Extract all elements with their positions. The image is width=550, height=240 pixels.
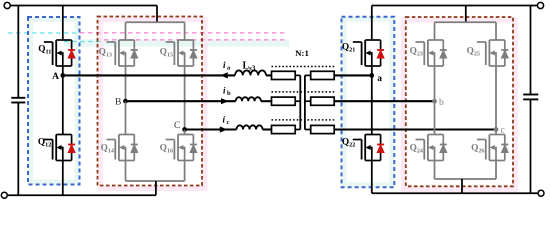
secondary winding b lead [305, 100, 311, 102]
svg-text:Q24: Q24 [410, 144, 423, 155]
svg-text:a: a [227, 65, 231, 72]
inductor coil (phase C inductor) [237, 125, 263, 129]
wire Q16 source to bus [184, 161, 186, 182]
magenta dashed group line (upper) [80, 32, 288, 34]
wire top bus legs B-C [126, 21, 185, 23]
wire phase C line [185, 128, 237, 130]
secondary neutral connection [304, 75, 306, 129]
svg-text:C: C [174, 121, 180, 131]
current arrow i_a (points left) [220, 72, 228, 78]
transformer secondary winding c [311, 125, 335, 133]
svg-text:B: B [115, 97, 121, 107]
svg-text:b: b [227, 90, 231, 97]
red dashed box (left legs B and C) [98, 17, 203, 186]
transistor Q12 [44, 135, 72, 161]
coupling dashed line a [272, 66, 335, 68]
wire node B to Q14 drain [125, 101, 127, 134]
wire Q23 source to node b [434, 66, 436, 101]
blue dashed box (right phase-a leg) [342, 17, 395, 188]
wire node a to Q22 drain [371, 75, 373, 134]
node C junction dot [182, 127, 187, 132]
wire Q11 source to node A [62, 66, 64, 75]
blue box halo right [344, 19, 392, 185]
transistor Q24 [416, 135, 444, 161]
wire phase A line [63, 74, 235, 76]
wire node b to Q24 drain [434, 101, 436, 134]
wire phase b line right [334, 100, 434, 102]
wire Q12 source to rail [62, 161, 64, 196]
transistor Q21 [353, 40, 381, 66]
wire left bus upper [17, 6, 19, 98]
transformer secondary winding b [311, 97, 335, 105]
wire Q13 source to node B [125, 66, 127, 101]
svg-text:Q15: Q15 [160, 48, 173, 59]
svg-text:Q21: Q21 [342, 43, 355, 54]
primary winding b lead [295, 100, 300, 102]
node B junction dot [123, 99, 128, 104]
transformer primary winding a [272, 71, 296, 79]
coupling dashed line c [272, 119, 335, 121]
transistor Q16 [166, 135, 194, 161]
node A junction dot [60, 73, 65, 78]
wire Q22 source to rail [371, 161, 373, 194]
svg-text:Q16: Q16 [160, 144, 173, 155]
cyan dashed group line (upper) [8, 32, 79, 34]
wire Q15 drain [184, 22, 186, 40]
svg-text:c: c [227, 119, 230, 126]
wire node A to Q12 drain [62, 75, 64, 134]
node a junction dot [369, 73, 374, 78]
secondary winding c lead [305, 129, 311, 131]
wire feed from top rail right red box [465, 6, 467, 23]
svg-text:Q25: Q25 [467, 47, 480, 58]
current arrow i_c (points right) [220, 126, 228, 132]
primary winding c lead [295, 129, 300, 131]
inductor coil (L_s3 phase A) [235, 70, 266, 75]
wire Q23 drain [434, 22, 436, 40]
wire Q21 source to node a [371, 66, 373, 75]
wire bottom bus drop to rail [155, 181, 157, 195]
current arrow i_b (points right) [221, 98, 229, 104]
svg-text:Q14: Q14 [101, 144, 114, 155]
wire Q11 drain [62, 6, 64, 41]
svg-text:Q23: Q23 [410, 47, 423, 58]
terminal DC input + [4, 2, 10, 8]
svg-text:b: b [439, 98, 444, 108]
svg-text:Q13: Q13 [99, 48, 112, 59]
svg-text:a: a [377, 74, 382, 84]
wire top rail left [10, 5, 157, 7]
transistor Q14 [107, 135, 135, 161]
svg-text:i: i [223, 86, 226, 96]
node b junction dot [432, 99, 437, 104]
transistor Q25 [477, 40, 505, 66]
wire Q13 drain [125, 22, 127, 40]
wire Q24 source to bus [434, 161, 436, 180]
svg-text:Q26: Q26 [471, 144, 484, 155]
wire Q25 drain [495, 22, 497, 40]
wire phase A to transformer [266, 74, 272, 76]
wire node C to Q16 drain [184, 130, 186, 135]
terminal DC input - [1, 192, 7, 198]
wire left bus lower [17, 103, 19, 196]
wire phase c line right [334, 128, 496, 130]
wire top bus legs b-c [435, 21, 497, 23]
capacitor C2 (output) [523, 95, 538, 100]
wire Q25 source to node c [495, 66, 497, 130]
terminal DC output + [537, 2, 543, 8]
highlight band (phase path tint) [64, 39, 289, 46]
capacitor C1 (input) [11, 98, 25, 103]
wire phase a line right [334, 74, 372, 76]
wire bottom bus legs B-C [126, 180, 185, 182]
wire bottom rail right [372, 192, 538, 194]
wire Q14 source to bus [125, 161, 127, 182]
transistor Q13 [107, 40, 135, 66]
red box halo left [101, 20, 206, 189]
primary neutral connection [299, 75, 301, 129]
wire bottom bus legs b-c [435, 178, 497, 180]
coupling dashed line b [272, 91, 335, 93]
wire phase C to transformer [263, 128, 272, 130]
svg-text:Ls3: Ls3 [243, 61, 256, 73]
wire phase B to transformer [261, 100, 272, 102]
terminal DC output - [538, 190, 544, 196]
node c junction dot [494, 127, 499, 132]
wire phase B line [126, 100, 236, 102]
wire right bus lower [530, 99, 532, 193]
svg-text:i: i [223, 115, 226, 125]
wire node c to Q26 drain [495, 130, 497, 135]
wire bottom rail left [7, 194, 156, 196]
magenta dashed group line (lower) [104, 39, 288, 41]
wire Q15 source to node C [184, 66, 186, 130]
wire Q26 source to bus [495, 161, 497, 180]
primary winding a lead [295, 74, 300, 76]
wire right bus upper [530, 6, 532, 95]
red box halo right [403, 20, 515, 189]
transistor Q23 [416, 40, 444, 66]
svg-text:Q11: Q11 [38, 45, 51, 56]
transistor Q11 [44, 40, 72, 66]
transistor Q26 [477, 135, 505, 161]
transistor Q15 [166, 40, 194, 66]
wire feed from top rail into red box [156, 6, 158, 23]
wire Q21 drain [371, 6, 373, 41]
transformer primary winding c [272, 125, 296, 133]
transformer primary winding b [272, 97, 296, 105]
svg-text:A: A [52, 72, 59, 82]
transistor Q22 [353, 135, 381, 161]
transformer secondary winding a [311, 71, 335, 79]
blue dashed box (left phase-A leg) [28, 17, 80, 185]
wire top rail right [372, 5, 538, 7]
red dashed box (right legs b and c) [406, 17, 513, 186]
cyan dashed group line (lower) [64, 41, 104, 43]
svg-text:N:1: N:1 [295, 48, 309, 58]
svg-text:i: i [223, 60, 226, 70]
wire bottom bus drop to right rail [461, 179, 463, 193]
inductor coil (phase B inductor) [236, 97, 261, 101]
secondary winding a lead [305, 74, 311, 76]
blue box halo left [31, 20, 78, 183]
